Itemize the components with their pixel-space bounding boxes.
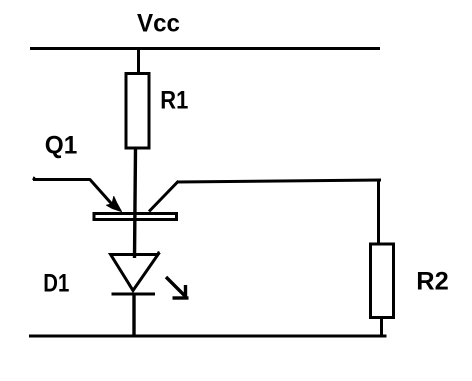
- wire base lead Q1: [33, 178, 90, 181]
- wire right vertical to R2: [377, 179, 380, 245]
- resistor R2: [371, 244, 394, 318]
- svg-text:D1: D1: [43, 270, 69, 298]
- Vcc rail wire: [30, 47, 380, 50]
- ground rail wire: [29, 335, 387, 338]
- resistor R1: [126, 74, 149, 149]
- LED light arrow D1: [166, 277, 189, 299]
- LED D1 triangle: [111, 255, 158, 291]
- svg-text:Q1: Q1: [45, 132, 78, 160]
- D1 triangle corner tick: [157, 252, 159, 256]
- base wire start tick: [33, 177, 35, 180]
- svg-text:Vcc: Vcc: [137, 10, 180, 38]
- svg-text:R1: R1: [160, 87, 188, 115]
- D1 cathode bar: [112, 293, 156, 296]
- wire R1 to D1 through bar: [135, 149, 136, 258]
- wire collector to R2: [177, 180, 381, 182]
- wire R2 to ground rail: [380, 316, 383, 336]
- arrowhead Q1 emitter: [107, 197, 122, 212]
- svg-text:R2: R2: [416, 268, 449, 296]
- wire D1 to ground rail: [132, 293, 135, 337]
- wire base diagonal Q1: [90, 179, 115, 207]
- wire collector diagonal Q1: [149, 181, 179, 212]
- transistor Q1 base bar: [94, 214, 177, 220]
- wire Vcc rail to R1: [137, 47, 140, 74]
